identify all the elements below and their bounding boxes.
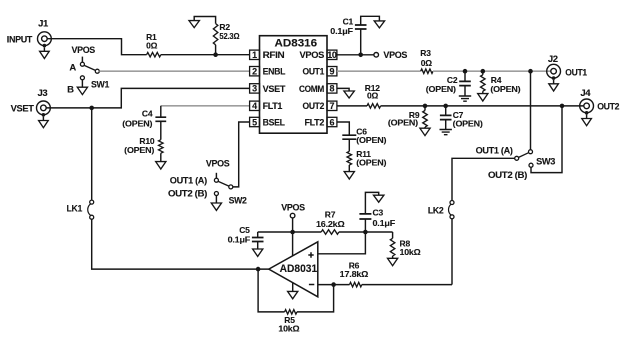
wire pin 7 to R12 <box>337 105 367 107</box>
node C2 junction <box>463 69 468 74</box>
wire R6 to LK2 riser <box>362 284 452 286</box>
resistor R4 <box>482 71 484 75</box>
svg-text:OUT2 (B): OUT2 (B) <box>168 189 207 200</box>
svg-text:3: 3 <box>252 84 257 94</box>
svg-text:J1: J1 <box>38 18 49 29</box>
ground below R11 <box>344 172 354 179</box>
wire LK1 to op amp input <box>92 219 269 269</box>
svg-text:VPOS: VPOS <box>71 45 95 56</box>
wire VPOS to op amp <box>292 218 294 256</box>
wire pin 9 to R3 <box>337 70 421 72</box>
svg-text:0Ω: 0Ω <box>421 58 433 68</box>
svg-text:J3: J3 <box>37 88 47 99</box>
switch SW2 <box>215 173 217 178</box>
svg-text:7: 7 <box>330 101 335 111</box>
svg-text:6: 6 <box>330 117 335 127</box>
svg-text:VPOS: VPOS <box>281 203 305 214</box>
wire C1 to ground <box>361 16 380 25</box>
svg-text:VPOS: VPOS <box>206 159 230 170</box>
wire SW3 B to OUT2 net <box>531 106 562 173</box>
svg-text:BSEL: BSEL <box>263 117 286 128</box>
op-amp U2 AD8031 <box>269 242 318 297</box>
wire pin 6 to C6 <box>337 122 349 135</box>
capacitor C4 <box>155 117 166 121</box>
node R4 junction <box>481 69 486 74</box>
ground below C5 <box>253 249 263 256</box>
capacitor C2 <box>464 71 466 81</box>
svg-text:0.1μF: 0.1μF <box>373 218 396 228</box>
svg-text:FLT1: FLT1 <box>263 101 284 112</box>
svg-text:(OPEN): (OPEN) <box>124 145 154 155</box>
ground below SW1 B <box>77 87 87 94</box>
svg-text:(OPEN): (OPEN) <box>490 84 520 94</box>
svg-text:OUT2 (B): OUT2 (B) <box>488 170 527 181</box>
ground above C1 <box>374 21 384 28</box>
wire SW1 to pin 2 ENBL <box>99 70 249 72</box>
ground below R4 <box>478 94 488 101</box>
svg-text:0.1μF: 0.1μF <box>228 235 251 245</box>
link LK1 <box>90 200 94 204</box>
svg-text:OUT2: OUT2 <box>303 101 325 112</box>
wire pin 10 to VPOS terminal <box>337 54 374 56</box>
capacitor C1 <box>360 29 362 55</box>
wire R5 to op amp input node <box>258 269 285 312</box>
svg-text:J2: J2 <box>548 54 558 65</box>
svg-text:10kΩ: 10kΩ <box>400 247 421 257</box>
svg-text:17.8kΩ: 17.8kΩ <box>340 269 369 279</box>
svg-text:R3: R3 <box>420 48 431 58</box>
svg-text:0Ω: 0Ω <box>146 40 158 50</box>
ground above R2 <box>189 21 199 28</box>
ground below R8 <box>388 258 398 265</box>
wire R1 to pin 1 RFIN <box>161 54 250 56</box>
switch SW3 <box>529 150 533 154</box>
node C1 junction <box>358 53 363 58</box>
node SW3 B riser junction <box>560 104 565 109</box>
wire R7 to R8 <box>339 231 393 233</box>
node op amp input junction <box>256 267 261 272</box>
ground below op amp <box>288 291 298 298</box>
svg-text:(OPEN): (OPEN) <box>453 119 483 129</box>
wire R10 to ground <box>160 153 162 161</box>
svg-text:4: 4 <box>252 101 257 111</box>
svg-text:C3: C3 <box>373 207 384 217</box>
svg-text:OUT1: OUT1 <box>565 68 587 79</box>
svg-text:AD8316: AD8316 <box>275 38 318 50</box>
link LK2 <box>450 201 454 205</box>
svg-text:(OPEN): (OPEN) <box>388 118 418 128</box>
terminal VPOS <box>374 53 379 58</box>
earth ground below C2 <box>459 96 471 101</box>
resistor R6 <box>350 282 362 287</box>
svg-text:AD8031: AD8031 <box>280 263 318 275</box>
wire R11 to ground <box>348 165 350 172</box>
capacitor C5 <box>257 232 259 238</box>
connector J1 <box>38 32 52 46</box>
wire C3 to ground <box>365 192 378 214</box>
svg-text:ENBL: ENBL <box>263 67 286 78</box>
connector J4 <box>580 99 594 113</box>
wire C5 line <box>258 231 322 233</box>
svg-text:OUT1 (A): OUT1 (A) <box>170 175 207 186</box>
ground below SW2 B <box>211 203 221 210</box>
resistor R11 <box>347 151 352 165</box>
svg-text:0Ω: 0Ω <box>367 91 379 101</box>
ground above C3 <box>374 195 384 202</box>
capacitor C3 <box>364 219 366 232</box>
wire J1 to R1 <box>47 39 147 55</box>
wire LK2 to R6 line <box>451 219 453 285</box>
resistor R3 <box>421 69 433 74</box>
resistor R1 <box>147 52 161 57</box>
wire minus input to R6 <box>318 284 350 286</box>
resistor R5 <box>285 310 297 315</box>
wire SW3 common to LK2 <box>452 158 515 200</box>
wire pin 4 FLT1 to C4 <box>161 105 250 107</box>
ground at COMM <box>344 91 354 98</box>
svg-text:LK2: LK2 <box>428 205 444 216</box>
terminal VPOS op amp <box>290 213 295 218</box>
svg-text:2: 2 <box>252 67 257 77</box>
wire op amp plus input <box>318 232 366 254</box>
wire VSET junction to LK1 <box>91 108 93 200</box>
node R2/RFIN junction <box>213 52 218 57</box>
svg-text:J4: J4 <box>580 88 591 99</box>
node C7 junction <box>443 104 448 109</box>
capacitor C7 <box>445 106 447 116</box>
svg-text:5: 5 <box>252 117 257 127</box>
svg-text:(OPEN): (OPEN) <box>122 118 152 128</box>
capacitor C6 <box>342 135 356 139</box>
svg-text:OUT2: OUT2 <box>597 101 619 112</box>
connector J3 <box>37 101 51 115</box>
svg-text:VSET: VSET <box>263 84 286 95</box>
svg-text:SW3: SW3 <box>536 156 555 167</box>
op-amp U1 AD8316 <box>260 36 328 134</box>
node SW3 riser junction <box>528 69 533 74</box>
svg-text:OUT1 (A): OUT1 (A) <box>476 145 513 156</box>
svg-text:LK1: LK1 <box>67 203 83 214</box>
svg-text:SW2: SW2 <box>229 196 247 207</box>
node R9 junction <box>423 104 428 109</box>
svg-text:FLT2: FLT2 <box>305 117 325 128</box>
svg-text:INPUT: INPUT <box>7 35 33 46</box>
ground below R10 <box>156 162 166 169</box>
svg-text:(OPEN): (OPEN) <box>426 84 456 94</box>
svg-text:0.1μF: 0.1μF <box>330 26 353 36</box>
wire pin 8 to ground <box>337 88 349 91</box>
svg-text:52.3Ω: 52.3Ω <box>219 31 239 41</box>
wire R3 to J2 <box>433 70 551 72</box>
wire C4 to R10 <box>160 121 162 139</box>
svg-text:SW1: SW1 <box>91 79 110 90</box>
resistor R7 <box>321 230 339 235</box>
wire op amp ground <box>292 283 294 292</box>
svg-text:A: A <box>69 63 76 74</box>
node VSET/LK1 junction <box>89 106 94 111</box>
svg-text:VPOS: VPOS <box>383 50 407 61</box>
node VPOS junction <box>290 230 295 235</box>
svg-text:10kΩ: 10kΩ <box>278 323 299 333</box>
svg-text:B: B <box>67 84 74 95</box>
svg-text:RFIN: RFIN <box>263 50 285 61</box>
svg-text:(OPEN): (OPEN) <box>356 135 386 145</box>
wire R12 to J4 <box>381 105 584 107</box>
ground below R9 <box>420 128 430 135</box>
switch SW1 <box>81 57 83 63</box>
resistor R9 <box>424 106 426 111</box>
resistor R10 <box>159 140 164 153</box>
svg-text:VPOS: VPOS <box>300 50 325 61</box>
wire C6 to R11 <box>348 139 350 151</box>
svg-text:OUT1: OUT1 <box>303 67 325 78</box>
resistor R8 <box>392 232 394 238</box>
resistor R2 <box>215 45 217 55</box>
svg-text:9: 9 <box>330 67 335 77</box>
wire SW2 to pin 5 BSEL <box>233 122 250 187</box>
earth ground below C7 <box>440 130 452 135</box>
wire OUT1 junction to SW3 A <box>530 71 532 149</box>
resistor R12 <box>367 104 381 109</box>
svg-text:C4: C4 <box>142 109 153 119</box>
svg-text:1: 1 <box>252 50 257 60</box>
svg-text:8: 8 <box>330 84 335 94</box>
svg-text:(OPEN): (OPEN) <box>356 157 386 167</box>
wire feedback to R5 <box>297 285 334 312</box>
svg-text:10: 10 <box>327 50 337 60</box>
svg-text:VSET: VSET <box>11 103 35 114</box>
node C3 junction <box>363 230 368 235</box>
node feedback junction <box>331 282 336 287</box>
connector J2 <box>547 64 561 78</box>
wire J3 to pin 3 VSET <box>46 88 250 108</box>
svg-text:16.2kΩ: 16.2kΩ <box>316 219 345 229</box>
svg-text:COMM: COMM <box>299 84 324 95</box>
